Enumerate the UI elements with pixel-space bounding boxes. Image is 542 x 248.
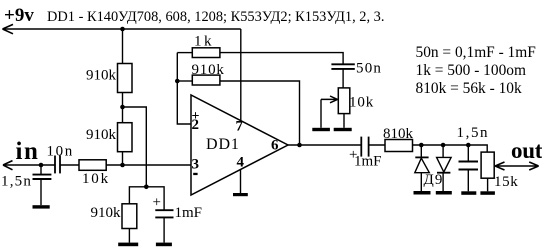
svg-text:10k: 10k	[349, 95, 374, 111]
wire R3 to ground	[128, 229, 130, 243]
wire 910k fb to output	[220, 81, 300, 145]
potentiometer 10k	[338, 88, 350, 114]
diode VD1 (cathode up)	[420, 145, 422, 158]
svg-text:3: 3	[192, 157, 200, 173]
svg-text:in: in	[16, 138, 40, 165]
wire node M right	[123, 107, 147, 187]
ground (pot)	[334, 128, 352, 131]
svg-text:out: out	[511, 138, 542, 163]
wire pin4 to ground	[240, 170, 242, 193]
svg-text:810k = 56k - 10k: 810k = 56k - 10k	[416, 80, 522, 97]
ground (15k)	[480, 191, 495, 195]
node feedback junction	[175, 79, 180, 84]
svg-text:Д9: Д9	[424, 172, 444, 188]
wire 1k left	[177, 52, 192, 54]
resistor 910k feedback	[192, 75, 220, 85]
svg-text:7: 7	[236, 119, 244, 135]
svg-text:4: 4	[237, 155, 245, 171]
node diode VD1 junction	[419, 143, 424, 148]
svg-text:1k = 500 - 100om: 1k = 500 - 100om	[416, 62, 526, 79]
ground (1,5n out)	[461, 191, 476, 195]
node C1.5n out junction	[466, 143, 471, 148]
capacitor 1,5n output shunt	[467, 145, 469, 161]
svg-text:810k: 810k	[383, 126, 414, 142]
resistor 10k input	[79, 160, 106, 171]
node C1.5n junction	[39, 163, 44, 168]
wire wiper to ground	[320, 99, 322, 127]
svg-text:DD1 - К140УД708, 608, 1208; К5: DD1 - К140УД708, 608, 1208; К553УД2; К15…	[47, 9, 384, 25]
capacitor 1mF bias (electrolytic)	[155, 210, 173, 217]
svg-text:15k: 15k	[494, 174, 518, 190]
diode VD2 (cathode down)	[442, 145, 444, 157]
capacitor C 1,5n input shunt	[40, 165, 42, 174]
wire 50n to pot	[342, 69, 344, 88]
wire R2 to input node	[122, 152, 124, 165]
svg-text:910k: 910k	[192, 62, 225, 78]
svg-text:910k: 910k	[86, 68, 117, 84]
op-amp U1 DD1 triangle	[191, 95, 288, 195]
ground (1mF bias)	[156, 243, 172, 247]
ground (R3)	[118, 243, 138, 247]
+9v supply rail wire	[3, 28, 241, 30]
resistor R1 910k (top left)	[118, 64, 133, 93]
ground (VD2)	[436, 191, 452, 195]
wire 15k to ground	[487, 178, 489, 191]
wire 10n to 10k	[60, 164, 79, 166]
svg-text:1,5n: 1,5n	[1, 174, 32, 190]
wire 1k to 50n	[220, 53, 343, 65]
pot wiper arrow	[321, 96, 338, 103]
node R2/input junction	[120, 163, 125, 168]
svg-text:1k: 1k	[194, 34, 214, 50]
ground (VD1)	[414, 191, 431, 195]
wire 10k to op-amp pin3	[106, 164, 191, 166]
svg-text:1mF: 1mF	[175, 205, 203, 221]
svg-text:2: 2	[192, 117, 200, 133]
svg-text:10n: 10n	[47, 143, 74, 159]
wire pin2	[177, 53, 191, 124]
out terminal double arrow	[495, 162, 538, 170]
resistor 810k	[385, 140, 413, 152]
in terminal arrow	[3, 161, 13, 170]
resistor R2 910k (middle left)	[118, 123, 133, 152]
resistor 15k output	[481, 152, 494, 178]
svg-text:50n: 50n	[356, 60, 382, 76]
wire 810k to out	[413, 145, 488, 152]
capacitor 10n (series)	[55, 156, 60, 174]
node: +9v / R1 junction	[120, 27, 125, 32]
node M junction	[120, 105, 125, 110]
svg-text:+9v: +9v	[4, 5, 34, 26]
ground (wiper)	[312, 128, 330, 131]
svg-text:+: +	[153, 195, 161, 211]
svg-text:1,5n: 1,5n	[457, 125, 490, 141]
bottom bias network wire	[129, 187, 164, 210]
wire 910k fb left	[177, 80, 192, 82]
node bias network junction	[144, 185, 149, 190]
wire R1 to node M	[122, 93, 124, 123]
wire +9v to resistor R1	[122, 29, 124, 64]
svg-text:DD1: DD1	[206, 136, 240, 153]
resistor 1k feedback	[192, 48, 220, 58]
wire pin6 output	[288, 144, 361, 146]
ground (pin4)	[233, 193, 248, 196]
wire pot to ground	[343, 114, 345, 128]
label pin -	[193, 173, 197, 175]
node diode VD2 junction	[441, 143, 446, 148]
wire in to C 10n	[3, 164, 55, 166]
svg-text:50n = 0,1mF - 1mF: 50n = 0,1mF - 1mF	[416, 44, 536, 61]
svg-text:6: 6	[271, 138, 279, 154]
+9v arrow head	[3, 24, 14, 33]
capacitor 1mF output (series)	[361, 137, 368, 157]
node output junction	[297, 143, 302, 148]
wire rail to pin 7	[240, 29, 242, 121]
svg-text:910k: 910k	[91, 205, 122, 221]
svg-text:1mF: 1mF	[354, 154, 382, 170]
resistor R3 910k (bottom)	[122, 204, 137, 229]
svg-text:910k: 910k	[86, 127, 117, 143]
wire 1mF to 810k	[369, 144, 385, 146]
capacitor 50n	[331, 64, 354, 69]
svg-text:10k: 10k	[82, 171, 110, 187]
ground (input cap)	[33, 205, 50, 208]
